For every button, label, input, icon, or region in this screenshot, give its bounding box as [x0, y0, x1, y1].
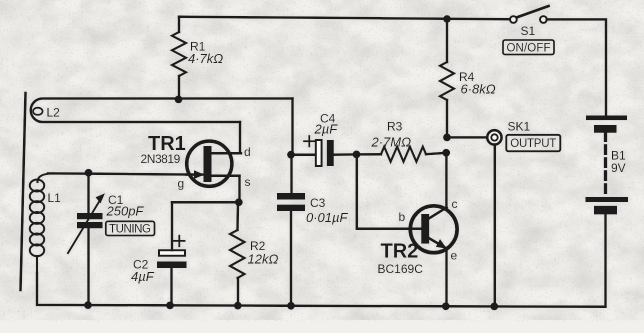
node TR1 source junction	[235, 198, 243, 206]
coil L2	[31, 99, 293, 123]
node R4/SK1 junction	[443, 134, 451, 142]
node rail/C2	[166, 302, 174, 310]
svg-text:SK1: SK1	[508, 120, 531, 134]
svg-text:9V: 9V	[611, 161, 626, 175]
node C1 top junction	[85, 169, 93, 177]
svg-text:BC169C: BC169C	[378, 262, 424, 276]
node rail/C1	[84, 301, 92, 309]
wire to output socket	[447, 136, 487, 139]
label box ON/OFF	[503, 40, 554, 55]
svg-text:d: d	[244, 145, 251, 159]
node rail/C3	[287, 302, 295, 310]
svg-text:OUTPUT: OUTPUT	[510, 138, 556, 150]
svg-text:2µF: 2µF	[314, 122, 339, 137]
svg-text:s: s	[245, 175, 251, 189]
svg-text:0·01µF: 0·01µF	[306, 210, 349, 225]
node C4 right junction	[353, 151, 361, 159]
resistor R4	[440, 19, 454, 137]
node top-rail / R4 junction	[443, 15, 451, 23]
label box TUNING	[106, 221, 155, 235]
resistor R2	[230, 202, 245, 305]
svg-text:C3: C3	[310, 196, 326, 210]
svg-text:b: b	[399, 210, 406, 224]
capacitor C3	[277, 155, 305, 306]
svg-text:4·7kΩ: 4·7kΩ	[188, 51, 223, 66]
node C4/C3 junction	[287, 151, 295, 159]
svg-text:12kΩ: 12kΩ	[248, 252, 279, 267]
transistor TR1 (FET)	[186, 141, 241, 186]
coil L1	[30, 174, 52, 274]
wire top rail	[179, 17, 510, 19]
wire bottom rail	[37, 273, 605, 307]
svg-text:TUNING: TUNING	[109, 224, 151, 236]
wire top rail right segment to battery	[547, 19, 606, 115]
svg-text:L2: L2	[47, 106, 61, 120]
variable capacitor C1	[68, 173, 105, 305]
battery B1	[586, 116, 629, 307]
svg-text:250pF: 250pF	[106, 204, 145, 219]
capacitor C4 (electrolytic)	[291, 136, 357, 166]
wire L2 to TR1 drain	[239, 122, 242, 153]
wire TR1 source down	[238, 176, 241, 203]
svg-text:e: e	[451, 249, 458, 263]
svg-text:R3: R3	[387, 120, 403, 134]
svg-text:2N3819: 2N3819	[141, 152, 181, 166]
switch S1	[510, 6, 548, 23]
svg-text:g: g	[178, 177, 185, 191]
wire C4 node to TR2 base	[357, 154, 421, 228]
resistor R3	[357, 147, 447, 162]
wire tuned-circuit top (gate line)	[48, 173, 204, 174]
resistor R1	[172, 17, 186, 100]
svg-text:L1: L1	[48, 191, 62, 205]
wire node A to C4 node	[291, 99, 294, 155]
svg-text:S1: S1	[521, 24, 536, 38]
wire TR2 collector up	[445, 153, 448, 208]
wire TR2 emitter down	[445, 249, 448, 307]
output socket SK1	[487, 130, 501, 144]
label box OUTPUT	[506, 135, 560, 151]
capacitor C2 (electrolytic)	[157, 202, 187, 305]
svg-text:c: c	[452, 197, 458, 211]
svg-text:TR2: TR2	[381, 241, 419, 263]
svg-text:ON/OFF: ON/OFF	[507, 43, 551, 55]
svg-text:6·8kΩ: 6·8kΩ	[461, 82, 496, 97]
wire source to C2	[172, 201, 239, 204]
svg-text:2·7MΩ: 2·7MΩ	[371, 135, 412, 150]
node rail/SK1	[490, 303, 498, 311]
node R3/collector junction	[442, 149, 450, 157]
node rail/R2	[234, 302, 242, 310]
svg-text:4µF: 4µF	[131, 269, 155, 284]
ferrite rod aerial	[21, 93, 26, 290]
transistor TR2	[410, 206, 457, 253]
wire SK1 down to rail	[494, 145, 497, 307]
node rail/TR2 emitter	[442, 302, 450, 310]
node A: R1 bottom junction	[175, 96, 183, 104]
